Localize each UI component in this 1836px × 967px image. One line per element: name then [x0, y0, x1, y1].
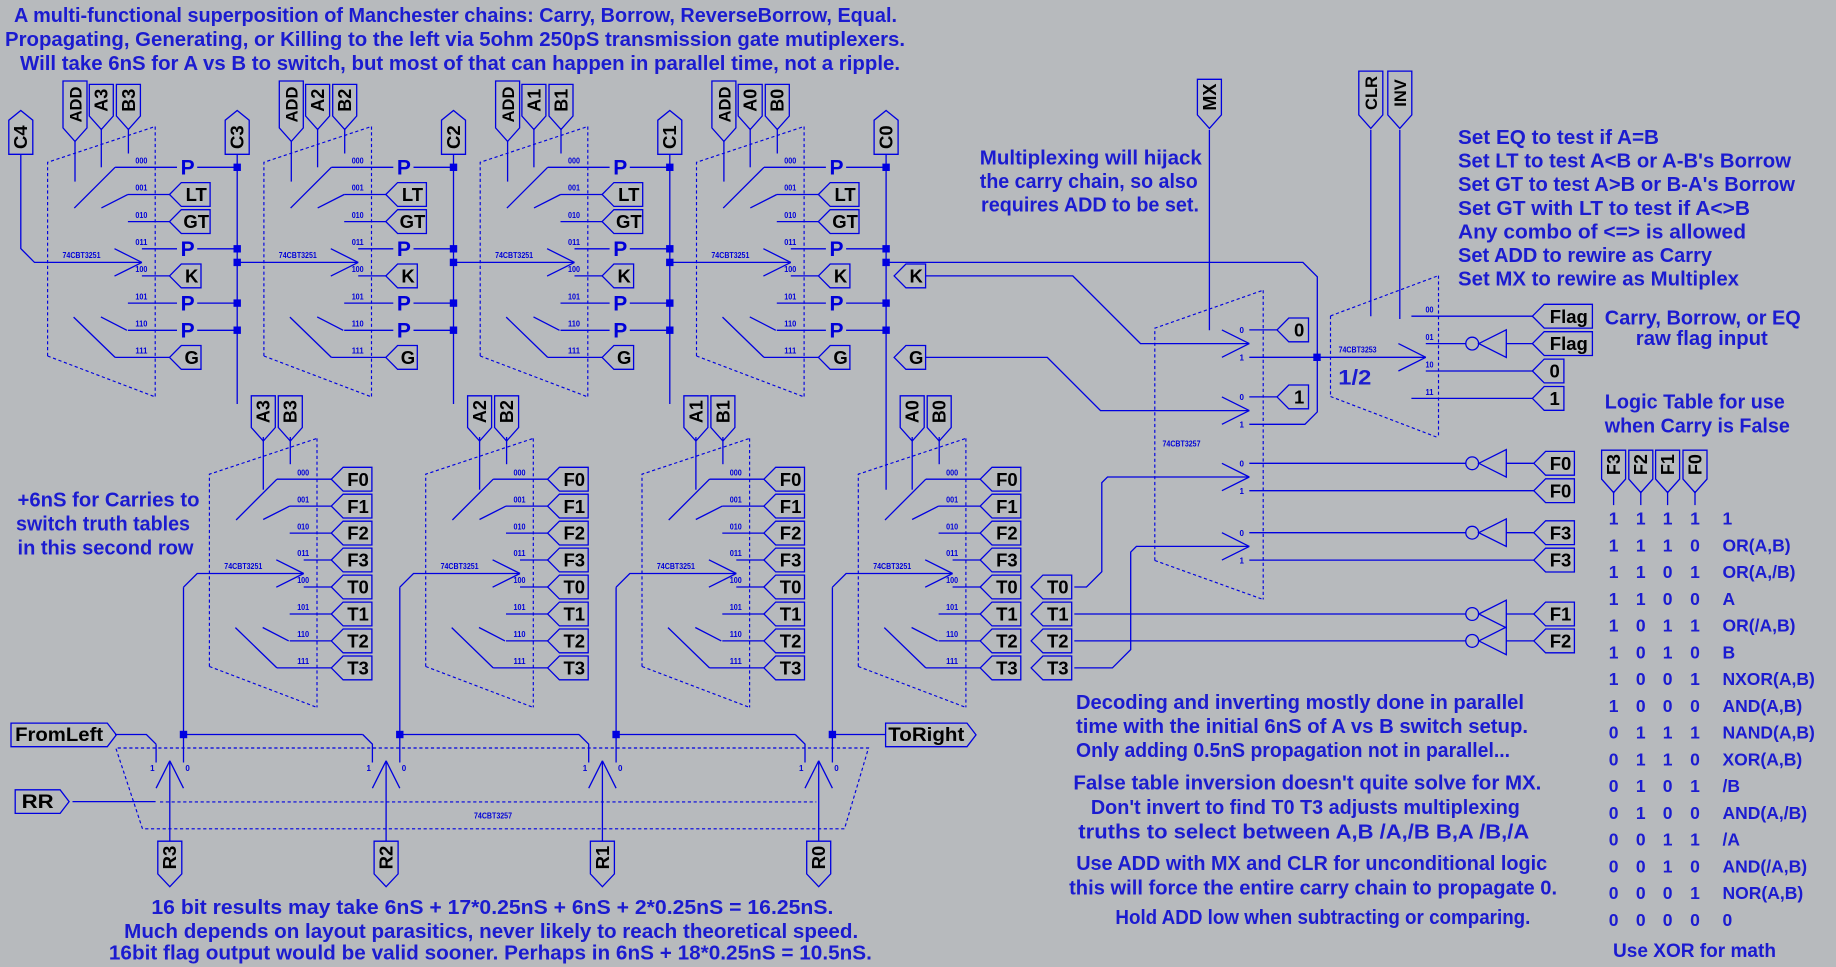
- svg-text:F0: F0: [1550, 480, 1572, 501]
- svg-text:0: 0: [1663, 803, 1673, 823]
- mux arrow R3 of U9: [156, 761, 170, 788]
- switch blade row 001 of U5 (function bit 3): [263, 506, 290, 519]
- svg-text:R2: R2: [376, 846, 397, 870]
- svg-text:0: 0: [1690, 696, 1700, 716]
- svg-text:when Carry is False: when Carry is False: [1604, 415, 1790, 437]
- svg-text:110: 110: [352, 320, 365, 329]
- svg-text:F2: F2: [1550, 631, 1572, 652]
- wire inverter to tag Flag: [1506, 343, 1532, 345]
- port A2 of U2 (carry bit 2): [306, 84, 330, 129]
- svg-text:001: 001: [730, 495, 742, 504]
- net tag T1: [1031, 602, 1072, 626]
- svg-text:P: P: [397, 320, 411, 343]
- svg-text:T1: T1: [347, 604, 369, 625]
- junction on bus C0 at y=330: [882, 327, 889, 334]
- wire row 110 of U4 (carry bit 0) to bus, net P: [777, 329, 826, 331]
- port tag T2 row 110 of U5 (function bit 3): [331, 629, 372, 653]
- svg-text:1: 1: [1636, 589, 1646, 609]
- svg-text:K: K: [618, 266, 632, 287]
- input wire A2 of U2 (carry bit 2): [317, 128, 319, 167]
- wire row 011 of U4 (carry bit 0) to bus, net P: [791, 248, 826, 250]
- svg-text:INV: INV: [1392, 79, 1410, 107]
- input wire A0 of U4 (carry bit 0): [749, 128, 751, 167]
- switch blade row 111 of U6 (function bit 2): [452, 628, 494, 668]
- input wire B3 of U5 (function bit 3): [289, 437, 291, 464]
- port CLR: [1359, 71, 1383, 128]
- wire row 000 of U8 (function bit 0): [926, 478, 980, 480]
- svg-text:16 bit results may take 6nS +: 16 bit results may take 6nS + 17*0.25nS …: [151, 897, 833, 919]
- wire stub under header F0: [1694, 491, 1696, 505]
- mux U2 (carry bit 2) 74CBT3251 dashed body outline: [264, 127, 372, 357]
- svg-text:110: 110: [784, 320, 797, 329]
- switch blade row 111 of U5 (function bit 3): [235, 628, 277, 668]
- svg-text:F2: F2: [347, 523, 369, 544]
- svg-text:0: 0: [1663, 883, 1673, 903]
- svg-text:1: 1: [1609, 509, 1619, 529]
- net tag K (kill) right of C0 bus: [894, 264, 926, 288]
- svg-text:1: 1: [1690, 830, 1700, 850]
- svg-text:Don't invert to find T0 T3 adj: Don't invert to find T0 T3 adjusts multi…: [1091, 797, 1520, 819]
- svg-text:Flag: Flag: [1550, 333, 1588, 354]
- svg-text:F3: F3: [1550, 550, 1572, 571]
- svg-text:000: 000: [352, 157, 364, 166]
- port B1 of U7 (function bit 1): [711, 396, 735, 441]
- svg-text:T1: T1: [564, 604, 586, 625]
- svg-text:101: 101: [568, 292, 580, 301]
- mux U3 (carry bit 1) 74CBT3251 dashed body outline: [480, 127, 588, 357]
- svg-text:F3: F3: [996, 550, 1018, 571]
- input wire A2 of U6 (function bit 2): [479, 437, 481, 490]
- wire row 010 of U6 (function bit 2): [506, 532, 548, 534]
- svg-text:0: 0: [1636, 696, 1646, 716]
- port tag LT row 001 of U1 (carry bit 3): [170, 183, 211, 207]
- port tag T3 row 111 of U8 (function bit 0): [980, 656, 1021, 680]
- svg-text:110: 110: [297, 630, 310, 639]
- svg-text:1: 1: [366, 764, 371, 773]
- net tag T0: [1031, 575, 1072, 599]
- junction on bus C2 at y=262: [450, 259, 457, 266]
- port tag 0 row10: [1532, 359, 1564, 383]
- svg-text:011: 011: [297, 549, 310, 558]
- switch blade row 001 of U6 (function bit 2): [480, 506, 507, 519]
- svg-text:Set GT to test A>B or B-A's Bo: Set GT to test A>B or B-A's Borrow: [1458, 174, 1795, 196]
- port A1 of U3 (carry bit 1): [522, 84, 546, 129]
- port tag G row 111 of U1 (carry bit 3): [170, 346, 202, 370]
- svg-text:100: 100: [352, 265, 364, 274]
- svg-text:0: 0: [1609, 750, 1619, 770]
- wire row 111 of U4 (carry bit 0): [764, 356, 818, 358]
- svg-text:A multi-functional superpositi: A multi-functional superposition of Manc…: [14, 5, 897, 27]
- select trunk wire from C1 bus into U4 (carry bit 0): [670, 261, 791, 263]
- svg-text:P: P: [613, 292, 627, 315]
- wire row 011 of U6 (function bit 2): [520, 559, 548, 561]
- input wire B0 of U4 (carry bit 0): [776, 128, 778, 153]
- switch blade row 000 of U5 (function bit 3): [236, 479, 277, 520]
- port tag F0 direct: [1534, 479, 1575, 503]
- svg-text:T2: T2: [996, 631, 1018, 652]
- svg-text:False table inversion doesn't: False table inversion doesn't quite solv…: [1073, 773, 1541, 795]
- svg-text:requires ADD to be set.: requires ADD to be set.: [981, 195, 1199, 217]
- svg-text:B1: B1: [713, 400, 733, 423]
- svg-text:101: 101: [135, 292, 147, 301]
- switch blade row 110 of U2 (carry bit 2): [317, 317, 343, 330]
- svg-text:F0: F0: [780, 469, 802, 490]
- net tag G (generate) right of C0 bus: [894, 346, 926, 370]
- svg-text:K: K: [185, 266, 199, 287]
- wire row 001 of U8 (function bit 0): [939, 505, 981, 507]
- svg-text:110: 110: [568, 320, 581, 329]
- svg-text:A: A: [1723, 589, 1736, 609]
- wire row 010 of U8 (function bit 0): [939, 532, 981, 534]
- port C4: [9, 111, 33, 155]
- svg-text:T2: T2: [1047, 631, 1069, 652]
- junction on bus C0 at y=262: [882, 259, 889, 266]
- mux arrow U10a: [1222, 330, 1249, 344]
- svg-text:in this second row: in this second row: [18, 538, 194, 560]
- port tag T1 row 101 of U6 (function bit 2): [548, 602, 589, 626]
- wire row 011 of U8 (function bit 0): [953, 559, 981, 561]
- svg-text:RR: RR: [22, 792, 54, 813]
- svg-text:1: 1: [1609, 536, 1619, 556]
- svg-text:0: 0: [1294, 320, 1304, 341]
- svg-text:1: 1: [1663, 643, 1673, 663]
- mux U4 (carry bit 0) 74CBT3251 dashed body outline: [697, 127, 805, 357]
- svg-text:Multiplexing will hijack: Multiplexing will hijack: [980, 148, 1203, 170]
- svg-text:111: 111: [730, 657, 743, 666]
- mux U1 (carry bit 3) 74CBT3251 dashed body outline: [48, 127, 156, 357]
- svg-text:P: P: [829, 292, 843, 315]
- result bus segment at x=184: [184, 734, 363, 736]
- wire row 111 of U7 (function bit 1): [710, 667, 764, 669]
- junction select trunk of U7 (function bit 1) on FromLeft bus: [612, 731, 619, 738]
- wire row 000 of U7 (function bit 1): [710, 478, 764, 480]
- svg-text:0: 0: [1690, 589, 1700, 609]
- wire row 100 of U2 (carry bit 2): [358, 275, 386, 277]
- svg-text:011: 011: [784, 238, 797, 247]
- svg-text:1: 1: [1723, 509, 1733, 529]
- port ADD of U2 (carry bit 2): [279, 81, 303, 141]
- input wire ADD of U4 (carry bit 0): [723, 141, 725, 182]
- wire row 100 of U7 (function bit 1): [736, 586, 764, 588]
- svg-text:R3: R3: [159, 846, 180, 870]
- wire row 111 of U5 (function bit 3): [277, 667, 331, 669]
- svg-text:OR(A,/B): OR(A,/B): [1723, 562, 1796, 582]
- port tag 0 (mux output): [1277, 318, 1309, 342]
- junction on select wire: [1313, 354, 1320, 361]
- wire row 000 of U2 (carry bit 2) to bus, net P: [331, 166, 393, 168]
- wire C0 tag to bus: [885, 154, 887, 167]
- svg-text:0: 0: [1690, 803, 1700, 823]
- svg-text:B3: B3: [119, 89, 139, 112]
- wire row 001 of U1 (carry bit 3): [128, 194, 170, 196]
- select arrow of U6 (function bit 2): [493, 560, 520, 574]
- wire FromLeft to R3 mux input 1: [115, 735, 156, 745]
- port C3: [225, 111, 249, 155]
- bus wire C3 vertical: [236, 167, 238, 404]
- svg-text:T0: T0: [1047, 577, 1069, 598]
- svg-text:101: 101: [514, 603, 526, 612]
- svg-text:F1: F1: [996, 496, 1018, 517]
- svg-text:ADD: ADD: [284, 87, 302, 123]
- svg-text:0: 0: [1609, 910, 1619, 930]
- svg-text:74CBT3251: 74CBT3251: [711, 251, 749, 260]
- svg-text:010: 010: [135, 211, 147, 220]
- svg-text:0: 0: [1609, 857, 1619, 877]
- junction on bus C0 at y=167: [882, 164, 889, 171]
- svg-text:P: P: [181, 292, 195, 315]
- svg-text:XOR(A,B): XOR(A,B): [1723, 750, 1803, 770]
- svg-text:010: 010: [352, 211, 364, 220]
- port tag T0 row 100 of U5 (function bit 3): [331, 575, 372, 599]
- wire K to mux U10a: [925, 276, 1249, 344]
- svg-text:74CBT3251: 74CBT3251: [495, 251, 533, 260]
- svg-text:F3: F3: [564, 550, 586, 571]
- svg-text:C1: C1: [659, 125, 680, 149]
- port tag F1 row 001 of U8 (function bit 0): [980, 494, 1021, 518]
- svg-text:1: 1: [1609, 589, 1619, 609]
- svg-text:T0: T0: [347, 577, 369, 598]
- svg-text:1: 1: [1690, 509, 1700, 529]
- result bus segment at x=832: [832, 734, 885, 736]
- wire U10a row0 to tag 0: [1249, 329, 1277, 331]
- svg-text:T2: T2: [564, 631, 586, 652]
- port tag F1 row 001 of U5 (function bit 3): [331, 494, 372, 518]
- svg-text:1: 1: [1663, 723, 1673, 743]
- svg-text:F2: F2: [1631, 454, 1651, 475]
- junction on bus C1 at y=262: [666, 259, 673, 266]
- wire row 101 of U3 (carry bit 1) to bus, net P: [561, 302, 610, 304]
- output wire of mux R2: [385, 761, 387, 841]
- svg-text:011: 011: [135, 238, 148, 247]
- svg-text:0: 0: [1636, 616, 1646, 636]
- svg-text:T1: T1: [996, 604, 1018, 625]
- port RR: [15, 790, 69, 814]
- select arrow of U8 (function bit 0): [925, 560, 952, 574]
- svg-text:1: 1: [1549, 388, 1559, 409]
- svg-text:K: K: [910, 266, 924, 287]
- junction on bus C3 at y=167: [234, 164, 241, 171]
- wire row 001 of U3 (carry bit 1): [561, 194, 603, 196]
- wire U11 row 01 to inverter: [1426, 343, 1466, 345]
- svg-text:LT: LT: [618, 184, 640, 205]
- svg-text:74CBT3251: 74CBT3251: [657, 562, 695, 571]
- wire row 010 of U3 (carry bit 1): [561, 221, 603, 223]
- svg-text:B1: B1: [551, 89, 571, 112]
- svg-text:P: P: [829, 320, 843, 343]
- inverter on F0 (row0): [1466, 457, 1479, 470]
- wire U10b row0 to tag 1: [1249, 396, 1277, 398]
- port tag T0 row 100 of U6 (function bit 2): [548, 575, 589, 599]
- wire stub under header F2: [1640, 491, 1642, 505]
- svg-text:R0: R0: [808, 846, 829, 870]
- svg-text:0: 0: [1663, 776, 1673, 796]
- svg-text:F1: F1: [347, 496, 369, 517]
- wire row 011 of U1 (carry bit 3) to bus, net P: [142, 248, 177, 250]
- port tag Flag row01: [1532, 332, 1592, 356]
- svg-text:Set ADD to rewire as Carry: Set ADD to rewire as Carry: [1458, 245, 1713, 267]
- wire row 101 of U8 (function bit 0): [939, 613, 981, 615]
- svg-text:A1: A1: [686, 400, 706, 423]
- input wire ADD of U2 (carry bit 2): [290, 141, 292, 182]
- svg-text:/A: /A: [1723, 830, 1741, 850]
- wire inverter to tag F0: [1506, 462, 1534, 464]
- svg-text:0: 0: [1636, 883, 1646, 903]
- svg-text:1: 1: [1240, 421, 1245, 430]
- column header tag F2: [1629, 450, 1653, 492]
- port tag F3 row 011 of U5 (function bit 3): [331, 548, 372, 572]
- switch blade row 111 of U8 (function bit 0): [884, 628, 926, 668]
- svg-text:P: P: [829, 157, 843, 180]
- svg-text:T2: T2: [780, 631, 802, 652]
- select trunk wire of U6 (function bit 2) from result bus: [400, 574, 520, 588]
- wire row 111 of U6 (function bit 2): [493, 667, 547, 669]
- port tag GT row 010 of U2 (carry bit 2): [386, 210, 427, 234]
- svg-text:0: 0: [1549, 361, 1559, 382]
- svg-text:000: 000: [568, 157, 580, 166]
- wire row 111 of U1 (carry bit 3): [115, 356, 169, 358]
- svg-text:1: 1: [1240, 354, 1245, 363]
- port tag F0 row 000 of U5 (function bit 3): [331, 467, 372, 491]
- junction select trunk of U6 (function bit 2) on FromLeft bus: [396, 731, 403, 738]
- svg-text:110: 110: [730, 630, 743, 639]
- select dashed wire RR inside U9: [160, 801, 816, 803]
- port tag F0 inverted: [1534, 451, 1575, 475]
- inverter on F2: [1466, 635, 1479, 648]
- svg-text:P: P: [181, 320, 195, 343]
- wire INV: [1399, 130, 1401, 319]
- svg-text:ADD: ADD: [500, 87, 518, 123]
- svg-text:100: 100: [946, 576, 958, 585]
- junction on bus C1 at y=167: [666, 164, 673, 171]
- port ADD of U4 (carry bit 0): [712, 81, 736, 141]
- svg-text:1: 1: [1690, 562, 1700, 582]
- svg-text:101: 101: [730, 603, 742, 612]
- select arrow of U4 (carry bit 0): [763, 249, 790, 263]
- port tag F2: [1534, 629, 1575, 653]
- svg-text:A1: A1: [524, 89, 544, 112]
- column header tag F1: [1656, 450, 1680, 492]
- port tag F3 row 011 of U6 (function bit 2): [548, 548, 589, 572]
- svg-text:111: 111: [352, 347, 365, 356]
- svg-text:010: 010: [514, 522, 526, 531]
- mux U8 (function bit 0) 74CBT3251 dashed body outline: [858, 438, 966, 666]
- port tag GT row 010 of U3 (carry bit 1): [602, 210, 643, 234]
- svg-text:AND(A,/B): AND(A,/B): [1723, 803, 1808, 823]
- port tag T1 row 101 of U5 (function bit 3): [331, 602, 372, 626]
- svg-text:74CBT3251: 74CBT3251: [873, 562, 911, 571]
- switch blade row 000 of U8 (function bit 0): [885, 479, 926, 520]
- svg-text:AND(A,B): AND(A,B): [1723, 696, 1803, 716]
- inverter on Flag row01: [1466, 337, 1479, 350]
- svg-text:74CBT3251: 74CBT3251: [224, 562, 262, 571]
- bend wire bus to mux R2 input 1: [363, 735, 373, 763]
- input wire B1 of U7 (function bit 1): [722, 437, 724, 464]
- wire row 011 of U3 (carry bit 1) to bus, net P: [575, 248, 610, 250]
- svg-text:0: 0: [1636, 857, 1646, 877]
- mux U7 (function bit 1) 74CBT3251 dashed body outline: [642, 438, 750, 666]
- svg-text:0: 0: [1690, 857, 1700, 877]
- svg-text:T0: T0: [564, 577, 586, 598]
- svg-text:110: 110: [514, 630, 527, 639]
- port B3 of U1 (carry bit 3): [116, 84, 140, 129]
- svg-text:F2: F2: [780, 523, 802, 544]
- svg-text:A3: A3: [92, 89, 112, 112]
- junction on bus C3 at y=330: [234, 327, 241, 334]
- port ADD of U3 (carry bit 1): [496, 81, 520, 141]
- port tag G row 111 of U3 (carry bit 1): [602, 346, 634, 370]
- svg-text:GT: GT: [616, 211, 642, 232]
- svg-text:1: 1: [583, 764, 588, 773]
- svg-text:101: 101: [297, 603, 309, 612]
- svg-text:001: 001: [514, 495, 526, 504]
- svg-text:Only adding 0.5nS propagation: Only adding 0.5nS propagation not in par…: [1076, 740, 1510, 762]
- port C2: [442, 111, 466, 155]
- svg-text:100: 100: [297, 576, 309, 585]
- wire U11 row 00 to tag Flag: [1411, 315, 1532, 317]
- port tag F1: [1534, 602, 1575, 626]
- net tag T2: [1031, 629, 1072, 653]
- port tag F3 direct: [1534, 548, 1575, 572]
- mux U10 74CBT3257 dashed outline: [1155, 290, 1263, 560]
- svg-text:0: 0: [1609, 830, 1619, 850]
- port tag Flag row00: [1532, 304, 1592, 328]
- port tag F1 row 001 of U7 (function bit 1): [764, 494, 805, 518]
- svg-text:111: 111: [135, 347, 148, 356]
- svg-text:Set GT with LT to test if A<>B: Set GT with LT to test if A<>B: [1458, 198, 1750, 220]
- port tag G row 111 of U2 (carry bit 2): [386, 346, 418, 370]
- svg-text:NOR(A,B): NOR(A,B): [1723, 883, 1804, 903]
- svg-text:0: 0: [185, 764, 190, 773]
- svg-text:011: 011: [730, 549, 743, 558]
- select trunk wire of U8 (function bit 0) from result bus: [832, 574, 952, 588]
- port tag T2 row 110 of U8 (function bit 0): [980, 629, 1021, 653]
- svg-text:1: 1: [1636, 803, 1646, 823]
- switch blade row 001 of U2 (carry bit 2): [318, 195, 345, 208]
- port tag F0 row 000 of U6 (function bit 2): [548, 467, 589, 491]
- wire stub under header F1: [1667, 491, 1669, 505]
- wire U10d row1 to tag F3: [1249, 559, 1534, 561]
- svg-text:74CBT3253: 74CBT3253: [1339, 346, 1377, 355]
- svg-text:100: 100: [568, 265, 580, 274]
- svg-text:74CBT3251: 74CBT3251: [279, 251, 317, 260]
- port tag T0 row 100 of U8 (function bit 0): [980, 575, 1021, 599]
- wire U10c row1 to tag F0: [1249, 490, 1534, 492]
- svg-text:+6nS for Carries to: +6nS for Carries to: [18, 489, 200, 511]
- wire stub under header F3: [1613, 491, 1615, 505]
- mux arrow R1 of U9: [589, 761, 603, 788]
- wire row 001 of U7 (function bit 1): [722, 505, 764, 507]
- svg-text:Decoding and inverting mostly: Decoding and inverting mostly done in pa…: [1076, 692, 1524, 714]
- svg-text:P: P: [613, 320, 627, 343]
- port tag GT row 010 of U1 (carry bit 3): [170, 210, 211, 234]
- svg-text:Will take 6nS for A vs B to sw: Will take 6nS for A vs B to switch, but …: [20, 53, 900, 75]
- svg-text:ADD: ADD: [67, 87, 85, 123]
- svg-text:000: 000: [946, 468, 958, 477]
- svg-text:1: 1: [1663, 616, 1673, 636]
- result bus segment at x=616: [616, 734, 795, 736]
- mux arrow U10d: [1222, 533, 1249, 547]
- junction on bus C1 at y=330: [666, 327, 673, 334]
- port B0 of U8 (function bit 0): [927, 396, 951, 441]
- svg-text:11: 11: [1426, 388, 1435, 397]
- svg-text:A2: A2: [470, 400, 490, 423]
- svg-text:F1: F1: [1550, 604, 1572, 625]
- svg-text:ADD: ADD: [716, 87, 734, 123]
- input wire B1 of U3 (carry bit 1): [560, 128, 562, 153]
- svg-text:the carry chain, so also: the carry chain, so also: [980, 171, 1198, 193]
- svg-text:R1: R1: [592, 846, 613, 870]
- svg-text:100: 100: [514, 576, 526, 585]
